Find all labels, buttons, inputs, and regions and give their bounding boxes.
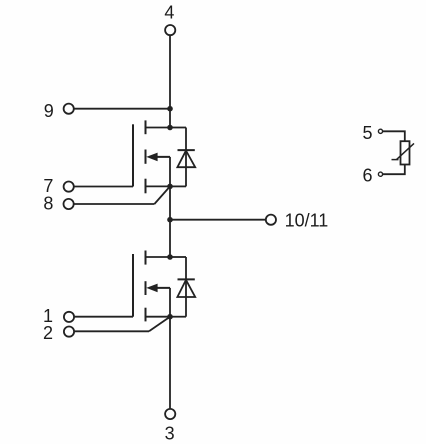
node output junction [167,217,173,223]
wire pin7 to Q1 gate [74,186,133,188]
wire Q2 source to pin3 [169,317,171,409]
svg-text:9: 9 [44,101,54,121]
thermistor R1 body [401,141,410,164]
transistor Q2 gate bar [132,254,134,317]
transistor Q2 body arrow [146,284,170,317]
terminal 4 [165,25,175,35]
terminal 6 [378,172,382,176]
wire pin6 to thermistor bottom [383,165,405,175]
wire pin5 to thermistor top [383,131,405,141]
terminal 2 [64,327,74,337]
node Q1 drain junction [167,125,173,131]
wire output node to pin10/11 [170,219,266,221]
svg-text:3: 3 [165,424,175,444]
transistor Q1 body arrow [146,153,170,187]
wire pin4 to upper drain node [169,36,171,128]
node Q2 drain junction [167,254,173,260]
transistor Q2 channel source segment [145,308,147,322]
terminal 7 [64,182,74,192]
transistor Q2 channel body segment [145,281,147,295]
terminal 3 [165,409,175,419]
terminal 8 [64,199,74,209]
diode D1 anti-parallel [170,128,195,187]
terminal 9 [64,104,74,114]
svg-text:6: 6 [362,166,372,186]
terminal 10/11 [266,215,276,225]
wire upper source to lower drain trunk [169,186,171,257]
svg-text:2: 2 [43,323,53,343]
node Q1 source junction [167,184,173,190]
transistor Q2 channel drain segment [145,251,147,265]
wire Q1 source lead [146,185,171,187]
transistor Q1 gate bar [132,124,134,186]
terminal 5 [378,129,382,133]
svg-text:5: 5 [362,123,372,143]
diode D2 anti-parallel [170,257,195,317]
svg-text:4: 4 [164,3,174,23]
transistor Q1 channel drain segment [145,120,147,134]
svg-text:8: 8 [43,193,53,213]
node Q2 source junction [167,314,173,320]
wire pin8 to Q1 source [74,186,170,204]
transistor Q1 channel source segment [145,179,147,194]
wire Q2 drain lead [146,256,171,258]
transistor Q1 channel body segment [145,150,147,164]
terminal 1 [64,312,74,322]
wire pin9 to trunk [74,108,170,110]
wire Q1 drain lead [146,127,171,129]
thermistor R1 NTC mark [392,143,415,159]
svg-text:10/11: 10/11 [285,211,329,231]
wire pin2 to Q2 source [75,317,170,332]
wire pin1 to Q2 gate [75,316,133,318]
node pin9/trunk junction [167,106,173,112]
wire Q2 source lead [146,316,171,318]
